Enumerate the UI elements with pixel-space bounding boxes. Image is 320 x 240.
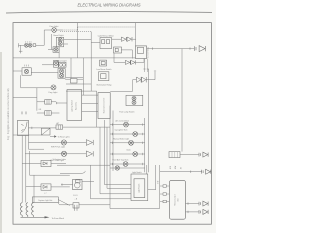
coil horn 1 [20, 203, 22, 218]
LH front park light row [25, 153, 86, 155]
page left edge shading [0, 52, 2, 233]
svg-text:R/H F Park Light: R/H F Park Light [51, 146, 65, 149]
to rear lights arrow [50, 136, 54, 138]
illumination row 4: Clock [110, 153, 145, 155]
diode box 2 [41, 184, 51, 190]
svg-text:Fog Light: Fog Light [50, 25, 59, 28]
wire y149.2 stub [29, 135, 45, 149]
lamp head light low beam [58, 42, 62, 46]
wire ignition top [60, 171, 85, 174]
illumination row 3: Manual Select Light [110, 142, 145, 144]
wire left rail interior rows [109, 106, 111, 209]
unit relay box E [169, 152, 180, 158]
wire bus y208.5 [110, 208, 160, 210]
wire unit right leads [82, 95, 98, 111]
ground connector E [199, 152, 208, 157]
svg-text:3B: 3B [180, 167, 182, 169]
retract control relay [135, 46, 146, 59]
wire stub corners to light switch [100, 185, 131, 194]
wire pair row [31, 72, 58, 74]
wire rails bottom right [147, 165, 160, 209]
lighting switch box [18, 120, 29, 135]
coil horn 2 [26, 203, 28, 218]
head light housing [56, 37, 63, 47]
svg-text:Manual Select Light: Manual Select Light [113, 138, 129, 141]
dimmer relay box [99, 72, 109, 81]
wire mid horizontals [66, 78, 97, 91]
lamp fog left [51, 85, 56, 90]
connector ticks below relay [143, 59, 149, 73]
wire P1 to relay [132, 38, 135, 40]
wire vertical x135.7 [135, 23, 137, 46]
connector row 1 [45, 100, 52, 105]
lamp front marker [54, 47, 58, 51]
wire left riser 2 [13, 75, 51, 111]
svg-text:Fog : Fog lights are available: Fog : Fog lights are available on some m… [7, 87, 10, 140]
wire fog light leads [44, 29, 62, 31]
diagram frame [13, 23, 211, 225]
svg-text:ELECTRICAL WIRING DIAGRAMS: ELECTRICAL WIRING DIAGRAMS [78, 3, 142, 8]
diode pair P2 [125, 60, 130, 64]
illumination row 2: Cig Lighter Illum [110, 133, 145, 135]
illumination control unit [98, 93, 110, 119]
svg-text:Unit: Unit [177, 198, 180, 202]
lamp side marker [54, 61, 58, 65]
wire bus verticals middle [71, 23, 97, 128]
coil horn 3 [32, 203, 34, 218]
svg-text:B W: B W [158, 180, 160, 184]
ignition switch box [73, 179, 82, 189]
diode pair P1 [121, 37, 126, 41]
wire diode2 row [26, 186, 41, 188]
svg-text:Retract Control: Retract Control [173, 194, 176, 206]
connector pin row 3 [160, 201, 163, 203]
wire rails mid [100, 111, 113, 194]
wire marks above lamps [25, 41, 31, 42]
low beam switch box [100, 60, 107, 66]
wire bus y57.8 [48, 57, 136, 59]
wire right rail interior rows [144, 118, 146, 172]
wire dashed fog to motor [62, 27, 135, 30]
svg-text:To Rear Lights: To Rear Lights [58, 136, 70, 139]
wire unit ground c [186, 211, 199, 213]
lamp head light high beam [58, 38, 62, 42]
ground connector F [202, 169, 211, 174]
svg-text:4RB: 4RB [170, 166, 172, 169]
svg-text:Light Switch: Light Switch [132, 171, 142, 174]
wire y135 left [13, 134, 42, 136]
svg-text:+ B: + B [75, 199, 78, 201]
lamp park/turn [24, 69, 28, 73]
wire left lamp row [19, 43, 45, 47]
wire marks above park box [25, 65, 29, 67]
light switch inner box [134, 179, 145, 198]
connector row 2 [45, 111, 52, 116]
wire ground return vertical [181, 49, 183, 152]
svg-text:Illumination Control: Illumination Control [103, 97, 106, 113]
wire motor leads [91, 39, 121, 42]
svg-text:4RW: 4RW [175, 165, 177, 169]
switch label marks [21, 112, 26, 115]
connector pin row 1 [160, 185, 163, 187]
park/turn lamp box [22, 68, 31, 75]
connector pin row 2 [160, 193, 163, 195]
wire risers from lighting switch [22, 136, 34, 203]
svg-text:Front Ash Tray Illum: Front Ash Tray Illum [112, 159, 128, 162]
park pair box [58, 69, 65, 79]
RH front park light row [29, 142, 87, 144]
svg-text:Illumination Relay: Illumination Relay [97, 83, 112, 86]
wire ground row y170.6 [160, 171, 202, 173]
svg-text:A/C Control Illum: A/C Control Illum [116, 119, 130, 122]
retract control unit [169, 180, 185, 219]
svg-text:Fog Light: Fog Light [49, 91, 58, 94]
lamp fog light front [52, 28, 57, 33]
wire row to rails [63, 126, 110, 128]
front marker housing [53, 47, 59, 53]
wire diagonal [58, 200, 70, 206]
wire relay to ground [147, 47, 194, 49]
light switch outer box [131, 174, 148, 201]
connector box with diagonal [42, 128, 51, 135]
foot lamp switch box [126, 95, 143, 105]
wire ignition leads [61, 182, 94, 186]
wire bus y198.8 [91, 165, 132, 199]
wire fog feed vertical [43, 30, 45, 45]
svg-text:To Fuse Block: To Fuse Block [52, 218, 65, 220]
side marker housing [54, 61, 59, 68]
wire headlight connections [48, 34, 91, 58]
daytime light unit [32, 197, 58, 203]
wire P3 feed [110, 80, 136, 92]
svg-text:B L S: B L S [73, 195, 78, 197]
wire bottom bus [21, 216, 45, 218]
ground connector c [199, 209, 208, 214]
lamp foot a [132, 96, 136, 100]
ground connector b [199, 201, 208, 206]
svg-text:To Daytime Lights: To Daytime Lights [53, 158, 67, 161]
svg-text:Clock: Clock [126, 150, 131, 152]
svg-text:Lighting Switch: Lighting Switch [71, 100, 74, 112]
wire side marker lead [42, 64, 54, 66]
lamp pair a [59, 69, 63, 73]
lamp pair b [59, 73, 63, 77]
svg-text:Foot Lamp Switch: Foot Lamp Switch [119, 110, 134, 113]
wire park lamp leads [13, 70, 22, 72]
svg-text:A/T: A/T [57, 122, 60, 125]
wire riser left [19, 45, 22, 53]
illumination row 1: A/C Control Illum [110, 124, 145, 126]
lighting switch unit [67, 90, 82, 121]
wire lighting switch row [29, 127, 57, 129]
fuse [73, 203, 79, 208]
wire dashed y31.7 [60, 31, 91, 33]
diode box 1 [41, 160, 51, 166]
diode pair P3 [137, 77, 142, 82]
lamp foot b [132, 101, 136, 105]
svg-text:Low Beam Switch: Low Beam Switch [96, 68, 111, 71]
svg-text:Daytime Light Unit: Daytime Light Unit [38, 199, 52, 202]
wire bus y165.2 [57, 164, 110, 166]
wire diode1 row [22, 162, 41, 164]
lamp turn signal pair left [24, 43, 28, 47]
title underline [6, 12, 212, 13]
svg-text:Light Retract Motor: Light Retract Motor [98, 35, 114, 38]
wire unit ground b [186, 202, 199, 204]
illumination row 6 [110, 167, 145, 169]
illumination row 5: Front Ash Tray Illum [110, 163, 145, 165]
wire P3 out [146, 71, 156, 80]
wire bus y58 [13, 57, 48, 59]
connector block [33, 44, 36, 47]
svg-text:f 7: f 7 [45, 193, 47, 195]
wire motor2 row [114, 50, 132, 63]
connector small box [71, 79, 78, 83]
wire box E to ground [180, 154, 199, 156]
svg-text:Assembly: Assembly [74, 102, 77, 110]
light retract motor assembly [100, 38, 112, 49]
connector on row [56, 125, 63, 129]
svg-text:Head Light: Head Light [53, 34, 63, 37]
svg-text:Cig Lighter Illum: Cig Lighter Illum [115, 129, 128, 132]
wire fuse row [59, 202, 110, 205]
wire bus y175.2 [30, 174, 70, 176]
svg-text:G B: G B [39, 109, 42, 111]
svg-text:Light Switch: Light Switch [137, 184, 140, 193]
light retract motor 2 [114, 47, 122, 53]
wire unit left lead [56, 102, 67, 104]
ground connector top right [194, 46, 205, 52]
wire rail x148.4 [147, 69, 149, 172]
head light 2 box [59, 62, 66, 67]
